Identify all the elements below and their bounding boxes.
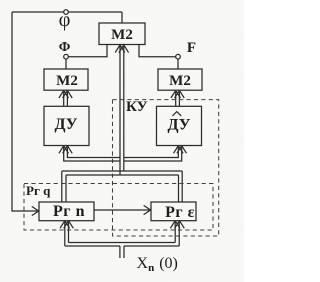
paper noise overlay <box>0 0 244 282</box>
node F terminal circle <box>176 54 181 59</box>
svg-text:ДУ: ДУ <box>55 116 78 133</box>
op block M2 left <box>44 69 88 90</box>
svg-text:Рг q: Рг q <box>26 183 51 198</box>
double arrow into DU-hat bottom <box>174 146 187 154</box>
op block M2 top <box>99 23 145 45</box>
wire left feedback vertical <box>12 12 32 211</box>
wire bus DU to M2 left with double arrow <box>64 90 68 106</box>
svg-text:φ: φ <box>59 9 71 31</box>
block DU left <box>44 106 89 145</box>
wire M2top to F node <box>139 45 176 57</box>
wire Xn(0) input stub <box>120 246 124 258</box>
svg-text:М2: М2 <box>111 27 133 43</box>
wire bus1 right branch to DU-hat bottom <box>124 146 182 161</box>
wire arrow into Pr n left <box>32 206 39 215</box>
wire bottom bus right up into Pr eps bottom <box>175 221 179 246</box>
wire bottom bus left up into Pr n bottom <box>65 221 69 246</box>
register block Pr n <box>39 202 94 221</box>
block DU-hat right <box>157 106 202 145</box>
op block M2 right <box>158 69 202 90</box>
node phi terminal circle <box>64 10 69 15</box>
svg-text:Рг n: Рг n <box>53 203 85 220</box>
wire bottom bus Xn distribution <box>65 243 179 247</box>
wire bus2 right down into Pr eps top <box>179 171 183 202</box>
svg-text:Xn (0): Xn (0) <box>137 255 178 274</box>
wire bus1 left branch to DU bottom <box>64 146 120 161</box>
wire bus DUhat to M2 right with double arrow <box>176 90 180 106</box>
wire F node into M2 right top <box>177 59 179 69</box>
svg-text:М2: М2 <box>56 73 78 89</box>
double arrow into Pr eps bottom <box>170 221 184 229</box>
svg-text:ДУ: ДУ <box>168 116 191 133</box>
dashed block KU boundary <box>113 100 219 236</box>
svg-text:КУ: КУ <box>126 99 148 115</box>
wire phi input top horizontal <box>12 12 122 23</box>
hat over DU <box>172 112 181 116</box>
wire center bus from bottom up into M2 top with double arrow <box>120 45 124 175</box>
wire bus2 horizontal Pr n top to Pr eps top <box>62 171 182 175</box>
dashed block Pr q boundary <box>24 184 213 231</box>
wire M2top to Phi node <box>68 45 107 57</box>
svg-text:М2: М2 <box>169 73 191 89</box>
svg-text:F: F <box>187 40 196 56</box>
svg-text:Рг ε: Рг ε <box>165 204 195 221</box>
wire Phi node into M2 left top <box>65 59 67 69</box>
wire bus2 left down into Pr n top <box>62 171 66 202</box>
double arrow into DU bottom <box>59 146 72 154</box>
register block Pr eps <box>151 202 196 221</box>
double arrow into Pr n bottom <box>60 221 73 229</box>
wire Pr n to Pr eps with arrow <box>94 205 151 214</box>
node Phi terminal circle <box>64 54 69 59</box>
svg-text:Φ: Φ <box>59 40 71 55</box>
